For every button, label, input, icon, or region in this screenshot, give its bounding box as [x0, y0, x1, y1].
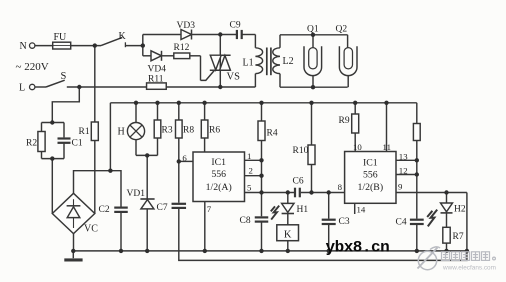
svg-text:R1: R1 — [79, 127, 90, 137]
svg-text:R10: R10 — [293, 146, 309, 156]
svg-text:K: K — [119, 31, 127, 42]
svg-text:C2: C2 — [99, 205, 110, 215]
svg-text:11: 11 — [383, 142, 391, 152]
svg-text:1/2(B): 1/2(B) — [358, 182, 384, 193]
svg-text:R9: R9 — [339, 116, 350, 126]
svg-text:IC1: IC1 — [211, 157, 226, 168]
svg-text:VD3: VD3 — [177, 21, 196, 31]
svg-text:H: H — [118, 126, 125, 137]
svg-text:R8: R8 — [183, 125, 194, 135]
svg-text:H1: H1 — [297, 205, 309, 215]
svg-text:N: N — [20, 41, 27, 52]
svg-text:10: 10 — [353, 142, 362, 152]
svg-text:~ 220V: ~ 220V — [16, 61, 49, 73]
svg-text:VC: VC — [84, 223, 98, 234]
svg-text:556: 556 — [211, 169, 226, 180]
svg-text:FU: FU — [54, 32, 68, 43]
svg-text:www.elecfans.com: www.elecfans.com — [442, 264, 496, 271]
svg-text:8: 8 — [338, 182, 343, 192]
svg-text:K: K — [284, 230, 292, 241]
svg-text:1/2(A): 1/2(A) — [206, 182, 232, 193]
svg-text:556: 556 — [363, 169, 378, 180]
svg-text:Q2: Q2 — [336, 24, 348, 34]
svg-text:L2: L2 — [283, 56, 294, 67]
svg-text:C3: C3 — [339, 217, 350, 227]
svg-text:13: 13 — [399, 152, 408, 162]
svg-text:R6: R6 — [209, 125, 220, 135]
svg-text:H2: H2 — [454, 204, 466, 214]
svg-text:12: 12 — [399, 166, 408, 176]
svg-text:R12: R12 — [174, 43, 190, 53]
svg-text:C1: C1 — [72, 139, 83, 149]
svg-text:R7: R7 — [453, 232, 464, 242]
svg-text:Q1: Q1 — [307, 24, 319, 34]
svg-text:R3: R3 — [162, 125, 173, 135]
svg-text:9: 9 — [398, 182, 403, 192]
svg-text:IC1: IC1 — [363, 157, 378, 168]
svg-text:L1: L1 — [243, 57, 254, 68]
svg-text:VS: VS — [227, 71, 241, 82]
svg-text:C7: C7 — [157, 203, 168, 213]
svg-text:6: 6 — [182, 153, 187, 163]
svg-text:R2: R2 — [26, 139, 37, 149]
svg-text:7: 7 — [207, 204, 212, 214]
svg-text:R11: R11 — [148, 75, 164, 85]
svg-text:S: S — [61, 71, 67, 82]
svg-text:VD1: VD1 — [127, 189, 146, 199]
svg-text:C9: C9 — [230, 21, 241, 31]
svg-text:C4: C4 — [396, 218, 407, 228]
svg-text:14: 14 — [357, 205, 366, 215]
svg-text:5: 5 — [247, 182, 252, 192]
svg-text:L: L — [19, 83, 25, 94]
svg-text:ybx8.cn: ybx8.cn — [326, 238, 390, 256]
svg-text:1: 1 — [247, 151, 251, 161]
svg-text:C8: C8 — [240, 216, 251, 226]
svg-text:VD4: VD4 — [148, 64, 167, 74]
svg-text:R4: R4 — [267, 128, 278, 138]
svg-text:2: 2 — [249, 166, 253, 176]
svg-text:C6: C6 — [293, 176, 304, 186]
